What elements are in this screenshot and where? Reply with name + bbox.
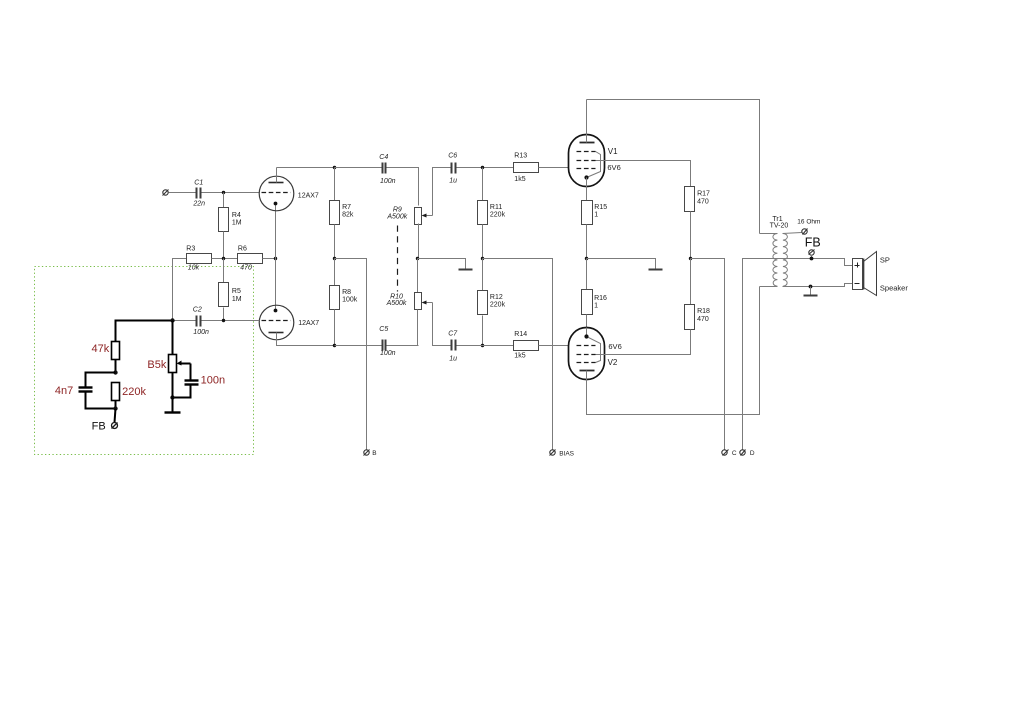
svg-text:6V6: 6V6 <box>607 163 620 172</box>
svg-text:1: 1 <box>594 212 598 219</box>
transformer Tr1 secondary winding <box>783 234 788 287</box>
node R7/R8 supply <box>333 257 336 260</box>
svg-text:220k: 220k <box>490 302 506 309</box>
svg-text:100k: 100k <box>342 297 358 304</box>
wire feedback tap (black) <box>116 320 173 322</box>
terminal C <box>722 450 737 458</box>
top rail V1 anode to transformer <box>587 100 760 234</box>
resistor 220k (feedback) <box>112 383 147 409</box>
node R9/R10 <box>416 257 419 260</box>
node R15/R16 <box>585 257 588 260</box>
svg-text:R8: R8 <box>342 289 351 296</box>
terminal B <box>364 450 377 457</box>
node C6/R11/R13 <box>481 166 484 169</box>
node C1/R4 <box>222 191 225 194</box>
svg-text:B5k: B5k <box>147 359 166 371</box>
pentode V1 6V6 <box>569 100 621 201</box>
wire V1 screen to R17 <box>596 161 691 187</box>
capacitor C7 1u <box>448 331 513 363</box>
svg-text:C: C <box>732 450 737 457</box>
wire FB terminal stub <box>811 255 813 259</box>
svg-text:B: B <box>372 450 376 457</box>
resistor R4 1M <box>219 193 242 259</box>
svg-text:V2: V2 <box>608 358 618 367</box>
svg-text:R12: R12 <box>490 294 503 301</box>
wire primary center tap to terminal D <box>743 259 778 450</box>
wire V2 screen to R18 <box>596 330 691 355</box>
svg-text:1k5: 1k5 <box>514 176 525 183</box>
svg-text:C1: C1 <box>194 179 203 186</box>
potentiometer R10 A500k <box>386 259 433 310</box>
resistor R14 1k5 <box>514 331 569 359</box>
ground near R11 <box>459 269 473 271</box>
svg-text:12AX7: 12AX7 <box>298 320 319 327</box>
wire B5k to ground <box>172 373 174 413</box>
svg-text:A500k: A500k <box>386 213 407 220</box>
terminal D <box>740 450 755 458</box>
wire cathode of lower triode <box>275 259 277 311</box>
wire R10 wiper to C7 <box>433 303 452 346</box>
node FB tap <box>810 257 814 261</box>
svg-text:R5: R5 <box>232 288 241 295</box>
svg-text:16 Ohm: 16 Ohm <box>797 218 820 225</box>
svg-text:220k: 220k <box>122 386 146 398</box>
wire R3 to R6 <box>212 258 238 260</box>
svg-text:220k: 220k <box>490 211 506 218</box>
svg-text:1u: 1u <box>449 178 457 185</box>
svg-text:100n: 100n <box>193 329 209 336</box>
node R11/R12 bias <box>481 257 484 260</box>
wire secondary top to 16 Ohm terminal <box>783 233 802 234</box>
terminal FB (left) <box>92 420 118 432</box>
svg-text:C5: C5 <box>379 326 388 333</box>
node R17/R18 <box>689 257 692 260</box>
capacitor C2 100n <box>175 307 260 336</box>
node feedback tap <box>170 318 174 322</box>
svg-text:V1: V1 <box>608 147 618 156</box>
svg-text:C6: C6 <box>448 153 457 160</box>
node 47k/220k/4n7 <box>113 370 117 374</box>
potentiometer R9 A500k <box>386 207 432 225</box>
wire node to ground stub <box>587 259 656 269</box>
svg-text:A500k: A500k <box>386 300 407 307</box>
svg-text:TV-20: TV-20 <box>770 223 789 230</box>
resistor R3 10k <box>186 246 211 272</box>
capacitor 4n7 (feedback) <box>55 373 116 409</box>
svg-text:100n: 100n <box>380 350 396 357</box>
wire C1 to grid of upper 12AX7 <box>202 192 260 194</box>
node anode/R7/C4 <box>333 166 336 169</box>
svg-text:R6: R6 <box>238 246 247 253</box>
terminal 16 Ohm <box>797 218 820 234</box>
svg-text:R16: R16 <box>594 295 607 302</box>
svg-text:470: 470 <box>697 198 709 205</box>
node secondary ground <box>809 285 813 289</box>
node C7/R12/R14 <box>481 344 484 347</box>
resistor R6 470 <box>238 246 263 272</box>
svg-text:1k5: 1k5 <box>514 352 525 359</box>
svg-text:R3: R3 <box>186 246 195 253</box>
resistor R5 1M <box>219 259 242 321</box>
svg-text:22n: 22n <box>192 200 205 207</box>
wire secondary tap to speaker plus <box>778 259 853 266</box>
resistor R13 1k5 <box>514 153 569 183</box>
resistor R18 470 <box>685 259 711 355</box>
svg-text:R11: R11 <box>490 204 502 211</box>
wire R9 bottom to node <box>418 224 420 259</box>
resistor R11 220k <box>478 168 506 259</box>
capacitor 100n (feedback) <box>173 364 226 398</box>
node R8/C5 <box>333 344 336 347</box>
triode U1a 12AX7 (upper) <box>259 168 319 211</box>
svg-text:R7: R7 <box>342 204 351 211</box>
resistor R17 470 <box>685 187 711 259</box>
capacitor C4 100n <box>335 154 419 206</box>
capacitor C6 1u <box>448 153 513 185</box>
wire upper anode to R7/C4 node <box>277 167 335 169</box>
svg-text:1M: 1M <box>232 296 242 303</box>
node 220k/4n7 <box>113 406 117 410</box>
node C2/R5 <box>222 319 225 322</box>
svg-text:R14: R14 <box>514 331 527 338</box>
svg-text:82k: 82k <box>342 212 354 219</box>
svg-text:470: 470 <box>240 265 252 272</box>
svg-text:1M: 1M <box>232 219 242 226</box>
svg-text:SP: SP <box>880 256 890 265</box>
svg-text:R15: R15 <box>594 204 607 211</box>
svg-text:6V6: 6V6 <box>608 342 621 351</box>
wire cathode of upper triode <box>275 204 277 259</box>
speaker SP <box>853 252 909 296</box>
wire R10 bottom to C5 row <box>417 310 419 346</box>
svg-text:D: D <box>750 450 755 457</box>
wire R6 to cathode column <box>263 258 276 260</box>
ground near R15 <box>649 269 663 271</box>
svg-text:1u: 1u <box>449 355 457 362</box>
svg-text:BIAS: BIAS <box>559 450 574 457</box>
node B5k/100n <box>170 395 174 399</box>
resistor 47k (feedback) <box>92 320 120 373</box>
svg-text:100n: 100n <box>201 374 225 386</box>
svg-text:FB: FB <box>92 420 106 432</box>
bottom rail V2 anode to transformer <box>587 287 760 415</box>
resistor R7 82k <box>330 168 354 259</box>
resistor R12 220k <box>478 259 506 346</box>
resistor R8 100k <box>330 259 358 346</box>
svg-text:R4: R4 <box>232 212 241 219</box>
pentode V2 6V6 <box>569 328 622 380</box>
wire node to terminal BIAS <box>483 259 553 450</box>
resistor R16 1 <box>582 259 608 329</box>
wire node to ground stub <box>418 259 466 269</box>
ground (feedback) <box>165 411 181 413</box>
wire node to terminal C <box>691 259 725 450</box>
triode U1b 12AX7 (lower) <box>259 305 334 345</box>
svg-text:C4: C4 <box>379 154 388 161</box>
feedback network dotted boundary box <box>35 267 254 455</box>
terminal FB (output) <box>805 236 821 256</box>
svg-text:C2: C2 <box>193 307 202 314</box>
wire R3 left to feedback column <box>173 259 187 321</box>
svg-text:R13: R13 <box>514 153 527 160</box>
node cathode junction <box>274 257 277 260</box>
ground at transformer secondary <box>804 295 818 297</box>
input terminal <box>163 190 169 196</box>
svg-text:12AX7: 12AX7 <box>298 193 319 200</box>
svg-text:C7: C7 <box>448 331 458 338</box>
capacitor C5 100n <box>335 326 419 357</box>
svg-text:100n: 100n <box>380 178 396 185</box>
svg-text:R18: R18 <box>697 308 710 315</box>
svg-text:10k: 10k <box>188 265 200 272</box>
capacitor C1 22n <box>192 179 205 207</box>
ganged link R9-R10 (dashed) <box>397 226 399 292</box>
wire to FB terminal (left) <box>115 409 116 423</box>
wire secondary bottom to speaker minus <box>783 284 853 287</box>
svg-text:R17: R17 <box>697 191 710 198</box>
wire input to C1 <box>169 192 197 194</box>
svg-text:47k: 47k <box>92 343 110 355</box>
svg-text:470: 470 <box>697 316 709 323</box>
svg-text:Speaker: Speaker <box>880 284 908 293</box>
svg-text:1: 1 <box>594 302 598 309</box>
transformer Tr1 TV-20 primary winding <box>760 216 789 287</box>
potentiometer B5k (feedback) <box>147 321 190 373</box>
wire node to ground stub (speaker) <box>810 287 812 295</box>
svg-text:FB: FB <box>805 236 821 250</box>
wire node to terminal B <box>335 259 367 450</box>
resistor R15 1 <box>582 201 608 259</box>
node R3/R4/R5/R6 <box>222 257 225 260</box>
wire R9 wiper to C6 <box>433 168 452 216</box>
terminal BIAS <box>550 450 575 458</box>
svg-text:4n7: 4n7 <box>55 385 73 397</box>
